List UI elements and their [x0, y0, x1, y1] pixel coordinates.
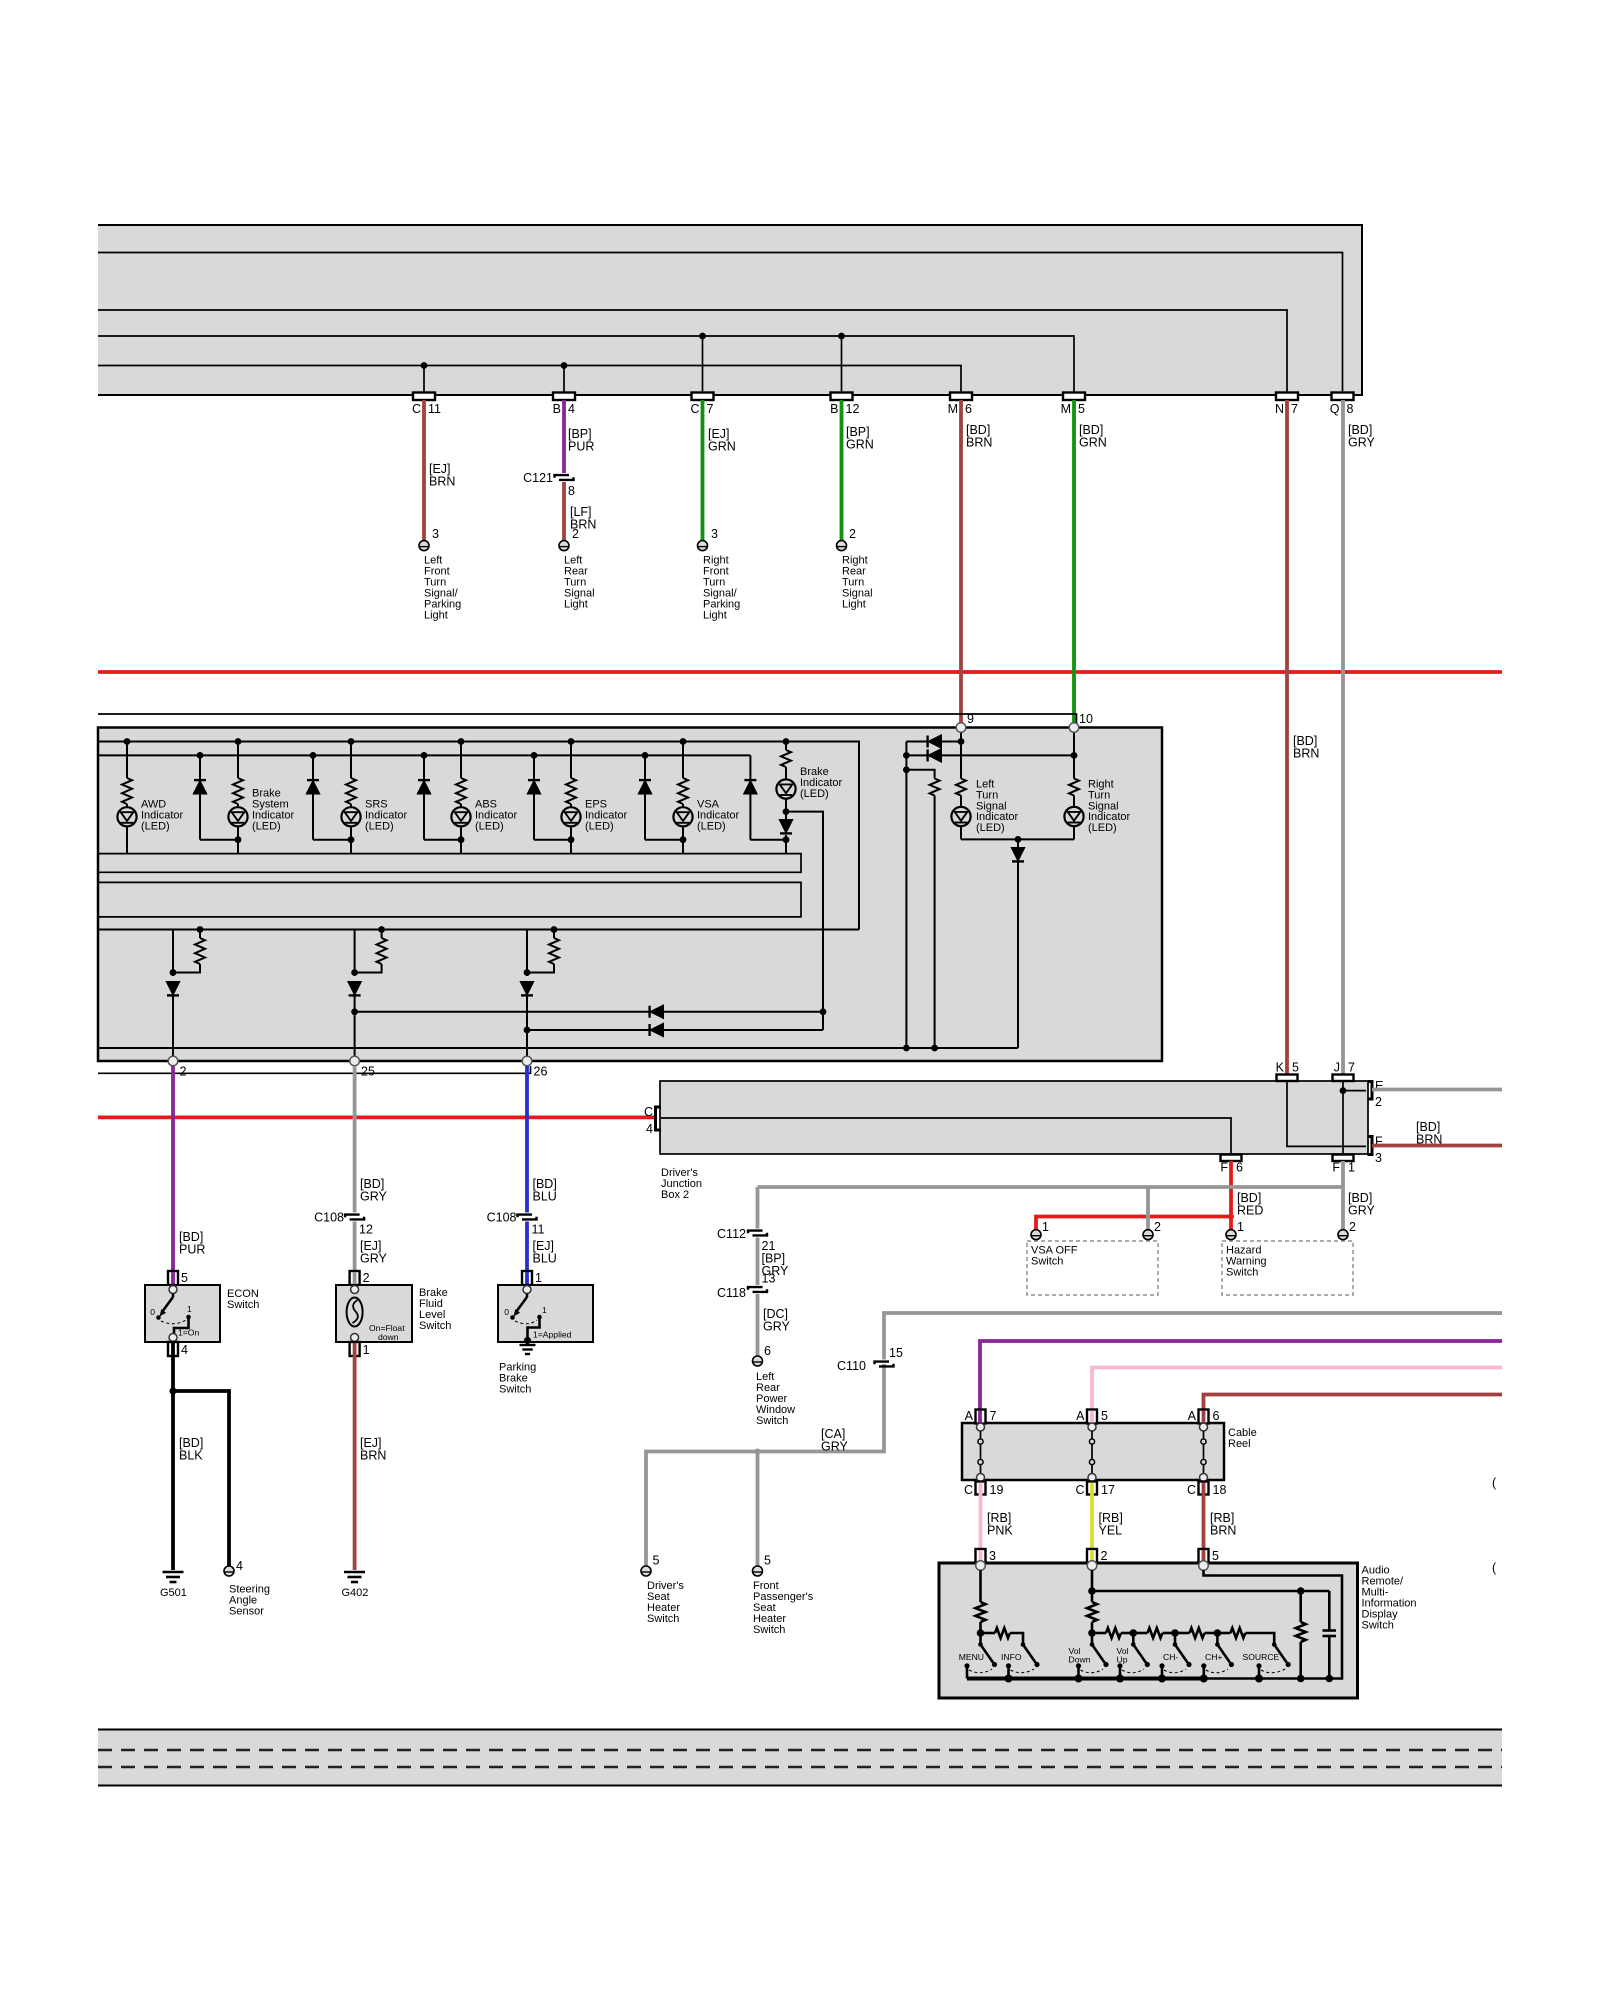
SRS column	[346, 738, 356, 854]
svg-text:2: 2	[1349, 1220, 1356, 1234]
VSA LED	[673, 807, 692, 826]
pin 5 circle	[1199, 1561, 1209, 1571]
svg-text:2: 2	[849, 527, 856, 541]
dimming branch wire x823	[786, 812, 823, 1030]
svg-text:C: C	[412, 402, 421, 416]
svg-text:BRN: BRN	[1416, 1133, 1442, 1147]
svg-text:25: 25	[361, 1065, 375, 1079]
svg-text:K: K	[1276, 1061, 1285, 1075]
svg-text:C: C	[690, 402, 699, 416]
parking 1 contact	[537, 1315, 542, 1320]
connector B-12	[831, 393, 853, 401]
svg-text:0: 0	[504, 1307, 509, 1317]
svg-text:GRY: GRY	[763, 1320, 791, 1334]
ECON elbow to pin 4	[174, 1317, 189, 1334]
turn signal feed line 1	[351, 1006, 826, 1018]
illumination resistor branch x934	[903, 766, 940, 1048]
junction dot B-4	[561, 362, 568, 369]
svg-text:13: 13	[762, 1272, 776, 1286]
Vol Up dashed arc	[1122, 1669, 1144, 1673]
svg-text:down: down	[378, 1332, 399, 1342]
Brake System LED	[228, 807, 247, 826]
internal line J7 to E2 and F1	[1340, 1081, 1366, 1153]
AWD column	[122, 738, 132, 854]
svg-text:15: 15	[889, 1346, 903, 1360]
parking ground dot	[524, 1337, 531, 1344]
parking dashed arc	[515, 1320, 537, 1324]
svg-text:2: 2	[363, 1271, 370, 1285]
internal feed line to RC filter	[1092, 1590, 1329, 1593]
svg-text:BRN: BRN	[429, 475, 455, 489]
MENU/INFO chain resistor	[981, 1628, 1024, 1645]
connector M-6	[950, 393, 972, 401]
EPS column	[566, 738, 576, 854]
EPS diode branch	[528, 752, 571, 840]
svg-text:GRN: GRN	[1079, 436, 1107, 450]
svg-text:4: 4	[236, 1559, 243, 1573]
wire M-6 [BD] BRN	[959, 400, 963, 723]
output bus line	[99, 929, 859, 931]
pin 10	[1069, 723, 1079, 733]
junction box	[660, 1081, 1368, 1154]
svg-text:C108: C108	[487, 1211, 517, 1225]
inline connector C108 (11)	[518, 1215, 537, 1220]
pin 5 internal path	[1204, 1570, 1343, 1679]
svg-text:5: 5	[1101, 1409, 1108, 1423]
connector pin 3	[976, 1549, 986, 1563]
wire BRN to cable reel	[1204, 1395, 1503, 1411]
connector Q-8	[1332, 393, 1354, 401]
wire stub through pin4	[171, 1343, 175, 1357]
svg-text:4: 4	[568, 402, 575, 416]
svg-text:B: B	[830, 402, 838, 416]
svg-text:M: M	[1061, 402, 1071, 416]
wire B-4 [BP] PUR	[562, 400, 566, 473]
connector B-4	[553, 393, 575, 401]
chain resistor 2	[1092, 1628, 1137, 1638]
wire [RB] BRN	[1202, 1495, 1206, 1550]
Left Turn Signal LED	[951, 807, 970, 826]
svg-text:0: 0	[150, 1307, 155, 1317]
terminal Right Front Turn Signal	[698, 541, 708, 551]
Right Turn Signal column	[1069, 728, 1079, 840]
wire C-11 [EJ] BRN	[422, 400, 426, 541]
wire F1 [BD] GRY down	[758, 1161, 1344, 1231]
svg-text:BLK: BLK	[179, 1449, 203, 1463]
stub wire B-12	[841, 336, 843, 395]
terminal VSA OFF pin 1	[1031, 1230, 1041, 1240]
SRS diode branch	[307, 752, 351, 840]
svg-text:Up: Up	[1117, 1655, 1128, 1665]
pin2 resistor column	[1087, 1570, 1097, 1637]
connector N-7	[1276, 393, 1298, 401]
EPS LED	[561, 807, 580, 826]
wire stub through pin2	[353, 1272, 357, 1286]
parking contact circle	[523, 1286, 531, 1294]
wire to bar	[785, 835, 787, 854]
svg-text:GRY: GRY	[821, 1440, 849, 1454]
svg-text:5: 5	[181, 1271, 188, 1285]
svg-text:SOURCE: SOURCE	[1243, 1652, 1280, 1662]
connector C-19	[976, 1482, 986, 1495]
CH+ fixed contact	[1201, 1663, 1206, 1678]
svg-text:C: C	[1075, 1483, 1084, 1497]
terminal Left Front Turn Signal	[419, 541, 429, 551]
INFO switch	[1021, 1642, 1040, 1667]
svg-text:2: 2	[1154, 1220, 1161, 1234]
svg-text:2: 2	[1101, 1549, 1108, 1563]
pin 2	[168, 1056, 178, 1066]
Vol Up fixed contact	[1117, 1663, 1122, 1678]
svg-text:5: 5	[1078, 402, 1085, 416]
connector C-17	[1087, 1482, 1097, 1495]
wire [EJ] BLU	[525, 1222, 529, 1272]
wire pin25 [BD] GRY	[353, 1066, 357, 1213]
ECON contact circle	[169, 1286, 177, 1294]
svg-text:1: 1	[535, 1271, 542, 1285]
svg-text:B: B	[553, 402, 561, 416]
terminal Driver's Seat Heater pin 5	[641, 1566, 651, 1576]
wire stub through pin 2	[1090, 1550, 1094, 1563]
wire PUR to cable reel	[980, 1341, 1502, 1410]
SOURCE dashed arc	[1261, 1669, 1285, 1673]
wire stub through pin5	[171, 1272, 175, 1286]
Brake System column	[233, 738, 243, 854]
inline connector C121	[555, 475, 574, 480]
svg-text:PUR: PUR	[179, 1243, 205, 1257]
Vol Down switch	[1090, 1633, 1109, 1667]
cable reel slip contacts col 2	[1088, 1423, 1096, 1482]
svg-text:17: 17	[1101, 1483, 1115, 1497]
wire E [BD] GRY right	[1372, 1088, 1502, 1092]
terminal Hazard pin 1	[1226, 1230, 1236, 1240]
svg-text:1: 1	[1237, 1220, 1244, 1234]
svg-text:GRY: GRY	[360, 1252, 388, 1266]
svg-text:F: F	[1332, 1161, 1340, 1175]
svg-text:GRN: GRN	[708, 440, 736, 454]
svg-text:M: M	[948, 402, 958, 416]
connector pin 5	[1199, 1549, 1209, 1563]
ECON switch box	[145, 1285, 220, 1342]
gauge control module bus box (top)	[98, 225, 1362, 395]
Parking Brake pin 1 connector	[522, 1271, 532, 1285]
pin 26	[522, 1056, 532, 1066]
BFL contact circle top	[351, 1286, 359, 1294]
wire stub through pin 5	[1202, 1550, 1206, 1563]
svg-text:7: 7	[1348, 1061, 1355, 1075]
SOURCE switch	[1272, 1642, 1291, 1667]
INFO fixed contact	[1006, 1663, 1011, 1678]
wire M-5 [BD] GRN	[1072, 400, 1076, 723]
wire stub through pin 3	[979, 1550, 983, 1563]
INFO dashed arc	[1011, 1669, 1035, 1673]
junction dot C-7	[699, 333, 706, 340]
svg-text:C: C	[1187, 1483, 1196, 1497]
Brake Fluid pin 2 connector	[350, 1271, 360, 1285]
svg-text:11: 11	[532, 1223, 545, 1237]
Parking Brake Switch box	[498, 1285, 593, 1342]
svg-text:26: 26	[534, 1065, 548, 1079]
svg-text:ECONSwitch: ECONSwitch	[227, 1288, 259, 1311]
connector A-6	[1199, 1410, 1209, 1424]
svg-text:1: 1	[187, 1304, 192, 1314]
pin2 output column	[167, 926, 205, 1058]
wire stub through pin1	[353, 1343, 357, 1357]
svg-text:9: 9	[967, 712, 974, 726]
svg-text:GRN: GRN	[846, 438, 874, 452]
svg-text:BRN: BRN	[1210, 1524, 1236, 1538]
wire pin2 [BD] PUR	[171, 1066, 175, 1271]
terminal Left Rear Turn Signal	[559, 541, 569, 551]
terminal Steering Angle Sensor	[224, 1566, 234, 1576]
connector C-7	[692, 393, 714, 401]
svg-text:Q: Q	[1330, 402, 1340, 416]
svg-text:RED: RED	[1237, 1204, 1263, 1218]
bus B	[99, 754, 750, 756]
CH+ switch	[1215, 1633, 1234, 1667]
svg-text:PNK: PNK	[987, 1524, 1013, 1538]
bus wire L1 (to Q-8)	[98, 253, 1343, 396]
wire stub through C-19	[979, 1483, 983, 1497]
svg-text:C: C	[644, 1105, 653, 1119]
cable reel slip contacts col 3	[1200, 1423, 1208, 1482]
svg-text:3: 3	[711, 527, 718, 541]
stub wire C-11	[423, 366, 425, 396]
svg-text:1: 1	[1042, 1220, 1049, 1234]
turn signal bottom link	[961, 836, 1074, 1048]
connector M-5	[1063, 393, 1085, 401]
svg-text:YEL: YEL	[1099, 1524, 1123, 1538]
pin 3 circle	[976, 1561, 986, 1571]
svg-text:8: 8	[568, 484, 575, 498]
wire stub through pin1	[525, 1272, 529, 1286]
wire [DC] GRY	[756, 1294, 760, 1356]
wire [BP] GRY	[756, 1238, 760, 1286]
pin9 branch with diode	[906, 736, 964, 748]
Vol Down fixed contact	[1076, 1663, 1081, 1678]
ECON bottom circle	[169, 1334, 177, 1342]
inline connector C118	[748, 1287, 767, 1292]
BFL bottom circle	[351, 1334, 359, 1342]
connector F-1	[1333, 1155, 1354, 1162]
svg-text:10: 10	[1079, 712, 1093, 726]
svg-text:G501: G501	[160, 1587, 187, 1599]
VSA OFF Switch dashed box	[1027, 1241, 1158, 1295]
BFL float symbol	[347, 1298, 363, 1327]
Vol Down dashed arc	[1081, 1669, 1104, 1673]
svg-text:A: A	[1076, 1409, 1085, 1423]
stub wire B-4	[563, 366, 565, 396]
internal line 3	[99, 1045, 1018, 1052]
internal line C4 to F6	[661, 1118, 1231, 1153]
connector A-5	[1087, 1410, 1097, 1424]
bus A	[99, 742, 859, 930]
connector A-7	[976, 1410, 986, 1424]
segment bar 1	[98, 854, 801, 873]
Hazard Warning Switch dashed box	[1222, 1241, 1353, 1295]
MENU fixed contact	[964, 1663, 969, 1678]
MENU dashed arc	[969, 1669, 992, 1673]
wire from left margin to pin 10	[98, 714, 1077, 728]
wire B-4 [LF] BRN	[562, 482, 566, 541]
bus wire L3 (to M-5)	[98, 336, 1074, 395]
svg-text:5: 5	[764, 1554, 771, 1568]
svg-text:4: 4	[181, 1343, 188, 1357]
SOURCE fixed contact	[1256, 1663, 1261, 1678]
VSA column	[678, 738, 688, 854]
cable reel slip contacts col 1	[977, 1423, 985, 1482]
ECON dashed arc	[161, 1320, 186, 1324]
svg-text:BRN: BRN	[360, 1449, 386, 1463]
svg-text:A: A	[1188, 1409, 1197, 1423]
svg-text:F: F	[1220, 1161, 1228, 1175]
inline connector C112	[748, 1231, 767, 1236]
svg-text:6: 6	[1213, 1409, 1220, 1423]
Brake Indicator column	[781, 738, 791, 820]
Brake Indicator diode branch	[744, 755, 786, 839]
chain resistor 5	[1217, 1628, 1274, 1645]
svg-text:4: 4	[646, 1122, 653, 1136]
ground G501	[163, 1572, 184, 1582]
Vol Up switch	[1131, 1633, 1150, 1667]
ECON 1 contact	[186, 1315, 191, 1320]
svg-text:N: N	[1275, 402, 1284, 416]
svg-text:MENU: MENU	[959, 1652, 984, 1662]
chain resistor 3	[1133, 1628, 1178, 1638]
wire Q-8 [BD] GRY	[1341, 400, 1345, 1075]
connector F (3)	[1368, 1137, 1373, 1155]
ECON pin 4 connector	[168, 1342, 178, 1356]
ECON switch arm	[156, 1294, 173, 1320]
pin 9	[956, 723, 966, 733]
svg-text:BRN: BRN	[966, 436, 992, 450]
MENU switch	[978, 1633, 997, 1667]
svg-text:11: 11	[428, 402, 441, 416]
red bus line (upper)	[98, 670, 1502, 674]
junction dot B-12	[838, 333, 845, 340]
wire [RB] YEL	[1090, 1495, 1094, 1550]
terminal VSA OFF pin 2	[1143, 1230, 1153, 1240]
svg-text:GRY: GRY	[1348, 1204, 1376, 1218]
junction dot C-11	[421, 362, 428, 369]
Cable Reel box	[962, 1423, 1224, 1480]
connector pin 2	[1087, 1549, 1097, 1563]
svg-text:7: 7	[707, 402, 714, 416]
pin25 output column	[349, 926, 387, 1058]
svg-text:6: 6	[965, 402, 972, 416]
wire [BP] GRY down left branch	[756, 1187, 760, 1229]
svg-text:18: 18	[1213, 1483, 1227, 1497]
CH- fixed contact	[1159, 1663, 1164, 1678]
pin26 output column	[521, 926, 559, 1058]
pin 2 circle	[1087, 1561, 1097, 1571]
SRS LED	[341, 807, 360, 826]
band	[98, 1730, 1502, 1786]
svg-text:GRY: GRY	[1348, 436, 1376, 450]
wire stub through A-7	[978, 1411, 982, 1425]
svg-text:C118: C118	[717, 1286, 746, 1300]
svg-text:19: 19	[990, 1483, 1004, 1497]
wire stub through A-6	[1202, 1411, 1206, 1425]
wire C-7 [EJ] GRN	[701, 400, 705, 541]
bus wire L4 (to M-6)	[98, 366, 961, 396]
svg-text:2: 2	[572, 527, 579, 541]
connector E	[1368, 1082, 1373, 1100]
CH- dashed arc	[1164, 1669, 1186, 1673]
Brake Indicator lower diode	[780, 820, 792, 833]
svg-text:5: 5	[1292, 1061, 1299, 1075]
ABS LED	[451, 807, 470, 826]
terminal Left Rear Power Window pin 6	[753, 1356, 763, 1366]
svg-text:BRN: BRN	[1293, 747, 1319, 761]
VSA diode branch	[639, 752, 683, 840]
svg-text:C108: C108	[314, 1211, 344, 1225]
wire B-12 [BP] GRN	[840, 400, 844, 541]
svg-text:C110: C110	[837, 1359, 866, 1373]
parking elbow to ground	[528, 1317, 540, 1340]
gauge box	[98, 728, 1162, 1062]
svg-text:3: 3	[432, 527, 439, 541]
svg-text:6: 6	[764, 1344, 771, 1358]
connector K-5	[1277, 1075, 1298, 1082]
CH- switch	[1173, 1633, 1192, 1667]
svg-text:G402: G402	[342, 1587, 369, 1599]
svg-text:2: 2	[1375, 1095, 1382, 1109]
ABS diode branch	[418, 752, 461, 840]
svg-text:Down: Down	[1069, 1655, 1091, 1665]
wire pin26 [BD] BLU	[525, 1066, 529, 1213]
svg-text:1=On: 1=On	[178, 1328, 199, 1338]
Brake Fluid Level Switch box	[336, 1285, 412, 1342]
red wire to C-4	[98, 1116, 655, 1120]
svg-text:12: 12	[846, 402, 860, 416]
segment bar 2	[98, 882, 801, 917]
svg-text:3: 3	[1375, 1151, 1382, 1165]
common bus	[967, 1675, 1329, 1683]
svg-text:2: 2	[180, 1065, 187, 1079]
Audio Remote box	[939, 1563, 1358, 1698]
pin3 resistor column	[976, 1570, 986, 1637]
svg-text:BLU: BLU	[533, 1190, 557, 1204]
svg-text:PUR: PUR	[568, 440, 594, 454]
svg-text:C121: C121	[523, 471, 553, 485]
wire [EJ] GRY	[353, 1222, 357, 1272]
svg-text:J: J	[1334, 1061, 1340, 1075]
svg-text:3: 3	[989, 1549, 996, 1563]
terminal Right Rear Turn Signal	[837, 541, 847, 551]
capacitor C	[1323, 1591, 1337, 1682]
Brake Indicator LED	[776, 779, 795, 798]
svg-text:1: 1	[363, 1343, 370, 1357]
svg-text:12: 12	[359, 1223, 373, 1237]
AWD LED	[117, 807, 136, 826]
pin 25	[350, 1056, 360, 1066]
internal line K5 to F3	[1287, 1081, 1366, 1146]
BFL pin 1 connector	[350, 1342, 360, 1356]
svg-text:7: 7	[990, 1409, 997, 1423]
wire N-7 [BD] BRN	[1285, 400, 1289, 1075]
svg-text:5: 5	[653, 1554, 660, 1568]
bus wire L2 (to N-7)	[98, 310, 1287, 395]
right vertical x906	[905, 742, 907, 1049]
terminal Hazard pin 2	[1338, 1230, 1348, 1240]
ABS column	[456, 738, 466, 854]
wire F3 [BD] BRN right	[1372, 1144, 1502, 1148]
svg-text:GRY: GRY	[360, 1190, 388, 1204]
svg-text:6: 6	[1236, 1161, 1243, 1175]
connector C-18	[1199, 1482, 1209, 1495]
parking ground symbol	[520, 1345, 536, 1354]
